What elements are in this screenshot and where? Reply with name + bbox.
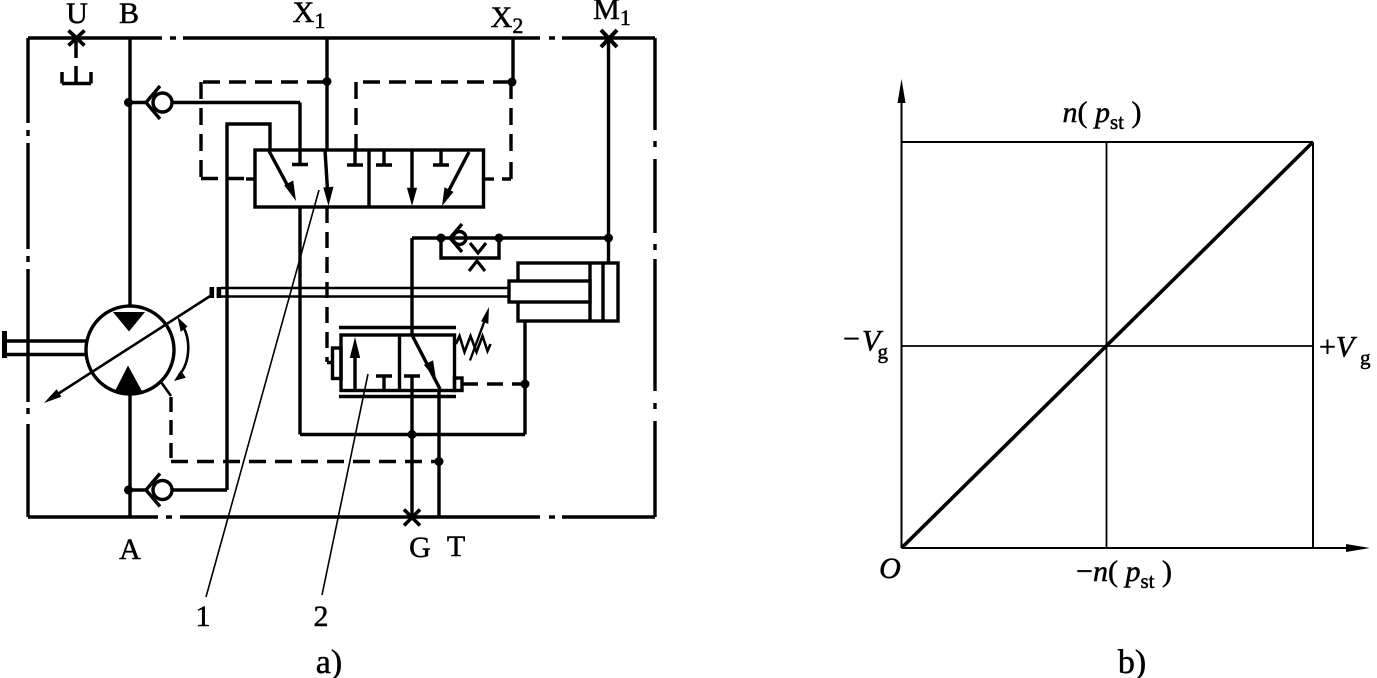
pump P1 (variable displacement, bidirectional) xyxy=(2,296,437,462)
node X2 pilot tap xyxy=(508,78,517,87)
pilot line X2 to valve 1 right end (dashed) xyxy=(509,82,512,156)
piston rod bar xyxy=(509,281,590,302)
enclosure frame (chain line, top edge) xyxy=(28,36,655,39)
rod upper line xyxy=(221,287,509,290)
svg-text:X1: X1 xyxy=(293,0,326,33)
svg-text:2: 2 xyxy=(314,600,329,633)
stroking cylinder C1 xyxy=(509,263,618,435)
svg-text:A: A xyxy=(119,533,141,566)
node X1 pilot tap xyxy=(323,77,332,86)
check valve V2 inlet wire from A line xyxy=(129,488,146,491)
graph box top xyxy=(902,141,1314,143)
valve 2 spring adjust arrow xyxy=(470,307,489,361)
valve 1 position divider xyxy=(367,150,370,207)
svg-text:G: G xyxy=(409,531,431,564)
pump rotation double arrow xyxy=(174,317,188,381)
pump case drain line (dashed down) xyxy=(169,397,172,462)
pointer line 1 xyxy=(206,190,319,597)
check valve V1 ball xyxy=(153,93,172,112)
port G cross xyxy=(404,510,420,526)
port U cross xyxy=(69,31,85,46)
wire valve 2 T port down xyxy=(437,391,440,518)
valve 2 underline xyxy=(339,395,456,398)
enclosure frame (left edge) xyxy=(26,38,29,517)
valve 2 position divider xyxy=(398,335,401,391)
graph mid vertical xyxy=(1106,142,1108,548)
svg-text:−n( pst ): −n( pst ) xyxy=(1076,555,1172,593)
main horizontal line y=434.5 xyxy=(300,433,525,436)
pump shaft flange xyxy=(2,331,7,358)
check valve V1 (near port B): inlet wire xyxy=(129,101,146,104)
svg-text:O: O xyxy=(879,552,901,585)
valve 1 flow arrow left diagonal xyxy=(269,151,296,201)
valve 1 body xyxy=(255,150,484,207)
pilot line valve 1 bottom to valve 2 left pilot (dashed x=327) xyxy=(327,207,333,363)
node B/check xyxy=(124,98,133,107)
valve 2 blocked port T right xyxy=(404,376,420,391)
node cylinder pilot xyxy=(521,380,530,389)
wire valve 1 bottom port to main line (x=300) xyxy=(298,207,301,435)
check valve V3 ball xyxy=(453,232,466,245)
wire X1 line xyxy=(325,38,328,150)
orifice chevron lower xyxy=(469,261,485,271)
svg-text:+V: +V xyxy=(1319,331,1358,364)
check valve V1 seat xyxy=(146,86,160,119)
valve 1 blocked port T1 xyxy=(292,150,308,165)
valve 2 (proportional pressure control valve) xyxy=(333,307,523,517)
svg-text:a): a) xyxy=(316,644,342,678)
check valve V2 ball xyxy=(153,481,172,500)
check valve V3 seat xyxy=(450,224,462,252)
node orifice right xyxy=(495,234,504,243)
graph b) xyxy=(898,79,1371,552)
wire X2 line xyxy=(511,38,514,82)
cylinder inner wall xyxy=(601,263,604,321)
valve 1 (pilot operated directional valve) xyxy=(255,150,484,207)
valve 2 body xyxy=(341,335,455,391)
junction dots xyxy=(124,77,613,495)
valve 2 left pilot box xyxy=(333,348,342,379)
wire valve 2 G port down xyxy=(410,391,413,518)
graph x-axis xyxy=(902,544,1371,552)
svg-text:−: − xyxy=(843,323,860,356)
pump triangle bottom xyxy=(114,366,143,394)
valve 2 overline xyxy=(339,326,456,329)
check valve V2 seat xyxy=(146,474,160,507)
port U test coupling symbol xyxy=(62,41,91,84)
valve 1 blocked port T4 xyxy=(433,150,449,165)
wire B line upper (port B down to pump) xyxy=(128,38,131,306)
orifice bypass loop xyxy=(441,238,499,258)
svg-text:B: B xyxy=(119,0,139,30)
node A/check xyxy=(124,486,133,495)
wire M1 line xyxy=(607,38,610,263)
check valve V2 (near port A): outlet wire to x=227 xyxy=(172,488,227,491)
control rod / feedback linkage xyxy=(210,287,510,298)
valve 2 spring (adjustable) xyxy=(456,336,491,352)
node G/main line xyxy=(408,430,417,439)
pilot line X2 to valve 1 top (dashed) xyxy=(356,82,511,179)
cylinder body xyxy=(518,263,618,321)
wire cylinder bottom port down to pilot node xyxy=(523,321,526,435)
graph diagonal characteristic xyxy=(902,142,1314,548)
wire main line y=238 (M1 to valve 2 drop) xyxy=(412,238,609,335)
node M1/orifice line xyxy=(604,234,613,243)
pump triangle top xyxy=(113,312,145,332)
svg-text:1: 1 xyxy=(196,600,211,633)
cylinder piston xyxy=(588,263,591,321)
wire from check valve V1 to valve 1 port (y=102.5) xyxy=(172,103,300,151)
pilot line valve 2 right to cylinder line (dashed) xyxy=(462,382,522,385)
svg-text:U: U xyxy=(66,0,88,30)
valve 1 flow arrow left vertical xyxy=(323,150,333,206)
rod end bars xyxy=(210,287,222,298)
pump shaft lines xyxy=(7,341,86,355)
wire A line lower (pump down to port A) xyxy=(128,394,131,517)
pump case drain line (solid stub) xyxy=(161,382,171,396)
valve 1 blocked port T2 xyxy=(347,150,363,165)
enclosure frame (right edge) xyxy=(653,38,656,517)
svg-text:M1: M1 xyxy=(593,0,631,30)
node orifice left xyxy=(437,234,446,243)
valve 2 blocked port T left xyxy=(376,376,392,391)
orifice chevron upper xyxy=(470,243,486,253)
graph box right xyxy=(1312,142,1314,548)
check valve / orifice assembly xyxy=(412,224,609,335)
pump variable displacement arrow xyxy=(44,296,211,404)
graph y-axis xyxy=(898,79,906,548)
svg-text:b): b) xyxy=(1118,644,1146,678)
enclosure frame (bottom edge) xyxy=(28,515,655,518)
svg-text:n( pst ): n( pst ) xyxy=(1062,96,1141,134)
valve 2 diagonal arrow xyxy=(412,335,440,389)
pilot stub into valve 1 right end xyxy=(484,177,495,180)
port M1 cross xyxy=(601,30,617,47)
svg-text:X2: X2 xyxy=(491,1,524,38)
pump circle xyxy=(86,306,174,394)
valve 1 blocked port T3 xyxy=(376,150,392,165)
svg-text:g: g xyxy=(878,340,889,364)
svg-text:g: g xyxy=(1360,346,1371,370)
pilot stub into valve 1 left end xyxy=(246,177,255,180)
valve 2 right pilot stub box xyxy=(455,378,463,391)
node T/drain xyxy=(435,457,444,466)
rod lower line xyxy=(221,295,509,298)
svg-text:T: T xyxy=(447,530,465,563)
pump case drain line (dashed right to T line) xyxy=(171,460,437,463)
pilot line X1 to valve 1 left end (dashed loop) xyxy=(201,82,324,179)
valve 1 flow arrow right diagonal xyxy=(442,152,469,206)
valve 2 up arrow xyxy=(350,337,360,389)
pointer line 2 xyxy=(322,374,368,595)
graph mid horizontal xyxy=(902,345,1314,347)
valve 1 flow arrow right vertical xyxy=(407,150,417,206)
wire U-loop from valve 1 port to vertical x=227 xyxy=(227,124,270,490)
